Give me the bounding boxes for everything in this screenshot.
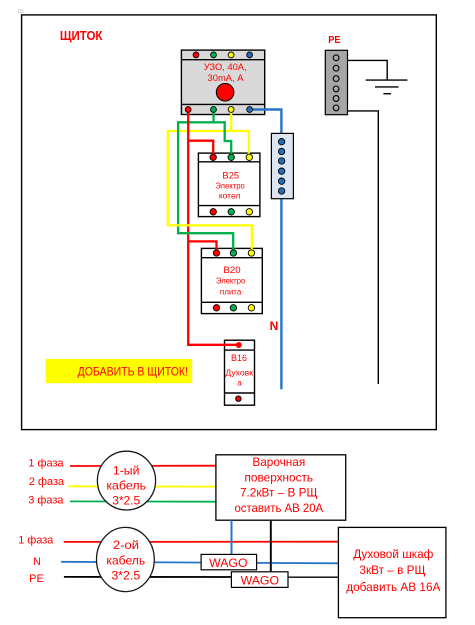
svg-text:Духовк: Духовк [225, 369, 253, 378]
svg-text:PE: PE [328, 34, 340, 46]
svg-text:оставить АВ 20А: оставить АВ 20А [234, 501, 323, 515]
svg-text:Духовой шкаф: Духовой шкаф [353, 547, 433, 561]
svg-text:N: N [33, 556, 41, 568]
svg-text:Электро: Электро [215, 182, 245, 191]
svg-text:1 фаза: 1 фаза [28, 457, 64, 469]
svg-text:кабель: кабель [106, 479, 146, 493]
svg-text:WAGO: WAGO [209, 556, 247, 570]
svg-text:УЗО, 40А,: УЗО, 40А, [204, 61, 247, 72]
svg-text:добавить АВ 16А: добавить АВ 16А [346, 580, 440, 594]
svg-text:1 фаза: 1 фаза [18, 534, 54, 546]
svg-text:30mA, А: 30mA, А [208, 72, 245, 83]
svg-text:котел: котел [219, 191, 241, 200]
svg-text:3 фаза: 3 фаза [28, 494, 64, 506]
svg-text:поверхность: поверхность [245, 470, 314, 484]
svg-text:В20: В20 [223, 265, 240, 275]
svg-text:3кВт – в РЩ: 3кВт – в РЩ [359, 563, 425, 577]
svg-text:кабель: кабель [106, 554, 145, 568]
svg-text:N: N [270, 319, 279, 333]
svg-text:2-ой: 2-ой [113, 538, 139, 552]
svg-text:WAGO: WAGO [241, 573, 279, 587]
svg-text:Электро: Электро [216, 276, 246, 285]
svg-text:2 фаза: 2 фаза [29, 476, 65, 488]
svg-text:ЩИТОК: ЩИТОК [60, 29, 103, 43]
svg-text:ДОБАВИТЬ В ЩИТОК!: ДОБАВИТЬ В ЩИТОК! [78, 364, 188, 378]
svg-text:Варочная: Варочная [252, 455, 305, 469]
svg-text:а: а [237, 378, 242, 387]
svg-text:PE: PE [29, 573, 44, 585]
svg-text:7.2кВт – В РЩ: 7.2кВт – В РЩ [240, 485, 318, 499]
svg-text:плита: плита [220, 287, 242, 296]
svg-text:3*2.5: 3*2.5 [111, 568, 140, 582]
svg-text:В25: В25 [222, 170, 239, 180]
svg-text:В16: В16 [231, 353, 247, 363]
svg-text:3*2.5: 3*2.5 [112, 494, 140, 508]
svg-text:1-ый: 1-ый [113, 463, 140, 477]
